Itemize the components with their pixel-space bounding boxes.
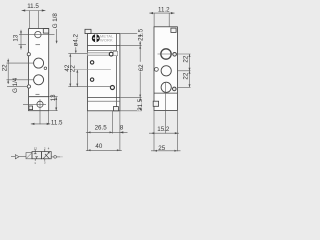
small circle right edge upper — [173, 53, 177, 57]
bottom-left square — [29, 106, 33, 110]
bolt hole ring upper — [90, 61, 93, 64]
dim 11.2 dimension line — [149, 12, 174, 14]
override circle — [54, 156, 57, 159]
dim 22 left: dimension line — [7, 59, 9, 84]
hidden dash line y44.7 — [19, 44, 27, 46]
svg-text:11.2: 11.2 — [158, 7, 170, 14]
dash above divider — [36, 93, 40, 95]
dim 13 bottom-section: dimension line — [55, 97, 57, 111]
svg-text:ø4.2: ø4.2 — [73, 33, 80, 46]
right 22/22 dimension line — [189, 54, 191, 87]
small port circle left edge lower — [27, 85, 30, 88]
big port circle 3 — [161, 82, 171, 92]
svg-text:13: 13 — [50, 94, 57, 101]
bottom circle crosshair — [23, 103, 46, 105]
line right of circle — [56, 156, 60, 158]
slot band — [88, 53, 110, 56]
small port circle left edge upper — [27, 53, 30, 56]
dimension 13 line — [20, 30, 22, 50]
bolt hole ring lower — [90, 78, 93, 81]
svg-text:22: 22 — [183, 72, 190, 79]
dim 22 left: extension lines — [7, 62, 34, 64]
dim 26.5/8 extension lines — [87, 111, 89, 151]
big port circle 2 — [34, 75, 44, 85]
h-line y50.7 — [88, 50, 117, 52]
svg-text:62: 62 — [138, 64, 145, 71]
left view body — [29, 29, 49, 111]
dim 15.2 dimension line — [149, 132, 179, 134]
center line y69.6 — [75, 69, 111, 71]
svg-text:26.5: 26.5 — [95, 124, 108, 131]
big port circle 1 — [161, 49, 171, 59]
leader arrow for ø4.2 — [75, 47, 77, 51]
pilot square top-right — [171, 28, 176, 32]
svg-text:15.2: 15.2 — [157, 126, 170, 133]
h-line y97.6 — [88, 97, 120, 99]
dim 13 bottom-section: extension lines — [49, 96, 58, 98]
dark ring top port — [109, 52, 113, 56]
spring/override line right — [51, 156, 54, 158]
dim 25 ext line left — [153, 110, 155, 151]
circle1 centerline — [158, 53, 191, 55]
valve body squares — [32, 152, 42, 159]
left square blocked ports — [34, 152, 36, 154]
pilot box with diagonal — [26, 153, 32, 159]
right 22/22 ext lines — [178, 70, 191, 72]
svg-text:G 1/4: G 1/4 — [12, 77, 19, 93]
dark ring bottom port — [110, 86, 114, 90]
pilot lead line — [11, 156, 15, 158]
inner right vertical line — [115, 34, 117, 111]
svg-text:11.5: 11.5 — [27, 3, 39, 10]
top pilot circle — [35, 31, 41, 37]
ext line y53.6 — [68, 53, 87, 55]
svg-text:22: 22 — [1, 64, 8, 71]
svg-text:22: 22 — [183, 55, 190, 62]
right square flow arrow — [43, 152, 49, 159]
big port circle 1 — [34, 58, 44, 68]
small circle right edge lower — [173, 87, 177, 91]
dim 11.5 bottom: extension line right — [48, 111, 50, 125]
divider line right view — [154, 92, 177, 94]
small circle left edge — [155, 68, 159, 72]
small square right of ring — [113, 51, 117, 55]
bottom circle — [37, 101, 43, 107]
center vertical line — [165, 82, 167, 134]
port line y86.7 — [68, 86, 113, 88]
dim 11.5 bottom: dimension line — [31, 123, 51, 125]
notch top-left — [85, 29, 91, 33]
top port ticks — [34, 150, 36, 152]
G 1/8 leader arrow — [56, 29, 58, 43]
big port circle 2 — [161, 66, 171, 76]
dimension 11.5 top: extension lines — [29, 11, 31, 29]
svg-text:WORK: WORK — [100, 37, 113, 42]
dim 40 line — [86, 149, 122, 151]
svg-text:8: 8 — [120, 125, 124, 132]
svg-text:25: 25 — [158, 145, 165, 152]
line to pilot box — [19, 156, 26, 158]
dim 22 line — [76, 70, 78, 87]
svg-text:22: 22 — [69, 65, 76, 72]
right-side dimension line 21.5/62/21.5 — [139, 34, 141, 111]
right view body — [154, 27, 177, 111]
pilot port square top-right (G 1/8) — [43, 29, 48, 33]
right-side ext lines of middle view — [120, 33, 141, 35]
bottom-left square right view — [153, 101, 158, 106]
svg-text:21.5: 21.5 — [137, 28, 144, 41]
dim 25 dimension line — [151, 150, 181, 152]
bottom port ticks — [34, 159, 36, 161]
dim line 26.5 / 8 — [86, 131, 128, 133]
top circle centerline — [19, 34, 55, 36]
tiny circle right of circle1 — [44, 67, 47, 70]
svg-text:13: 13 — [13, 34, 20, 41]
dim 42 line — [69, 54, 71, 87]
middle view body — [88, 34, 120, 111]
svg-text:12: 12 — [34, 147, 38, 151]
svg-text:21.5: 21.5 — [137, 98, 144, 111]
h-line y45.6 — [88, 45, 120, 47]
divider line bottom section — [29, 96, 49, 98]
circle2 centerline — [7, 79, 34, 81]
pilot triangle — [15, 155, 19, 159]
logo Metal Work — [92, 34, 100, 42]
dim 11.2 extension lines — [153, 13, 155, 26]
svg-text:G 1/8: G 1/8 — [52, 13, 59, 29]
dim 15.2 ext line — [176, 110, 178, 151]
svg-text:11.5: 11.5 — [51, 119, 63, 126]
bottom-right small square — [113, 107, 118, 111]
svg-text:40: 40 — [95, 143, 102, 150]
dimension 11.5 top: dimension line — [22, 10, 46, 12]
h-line y101.2 — [88, 100, 120, 102]
